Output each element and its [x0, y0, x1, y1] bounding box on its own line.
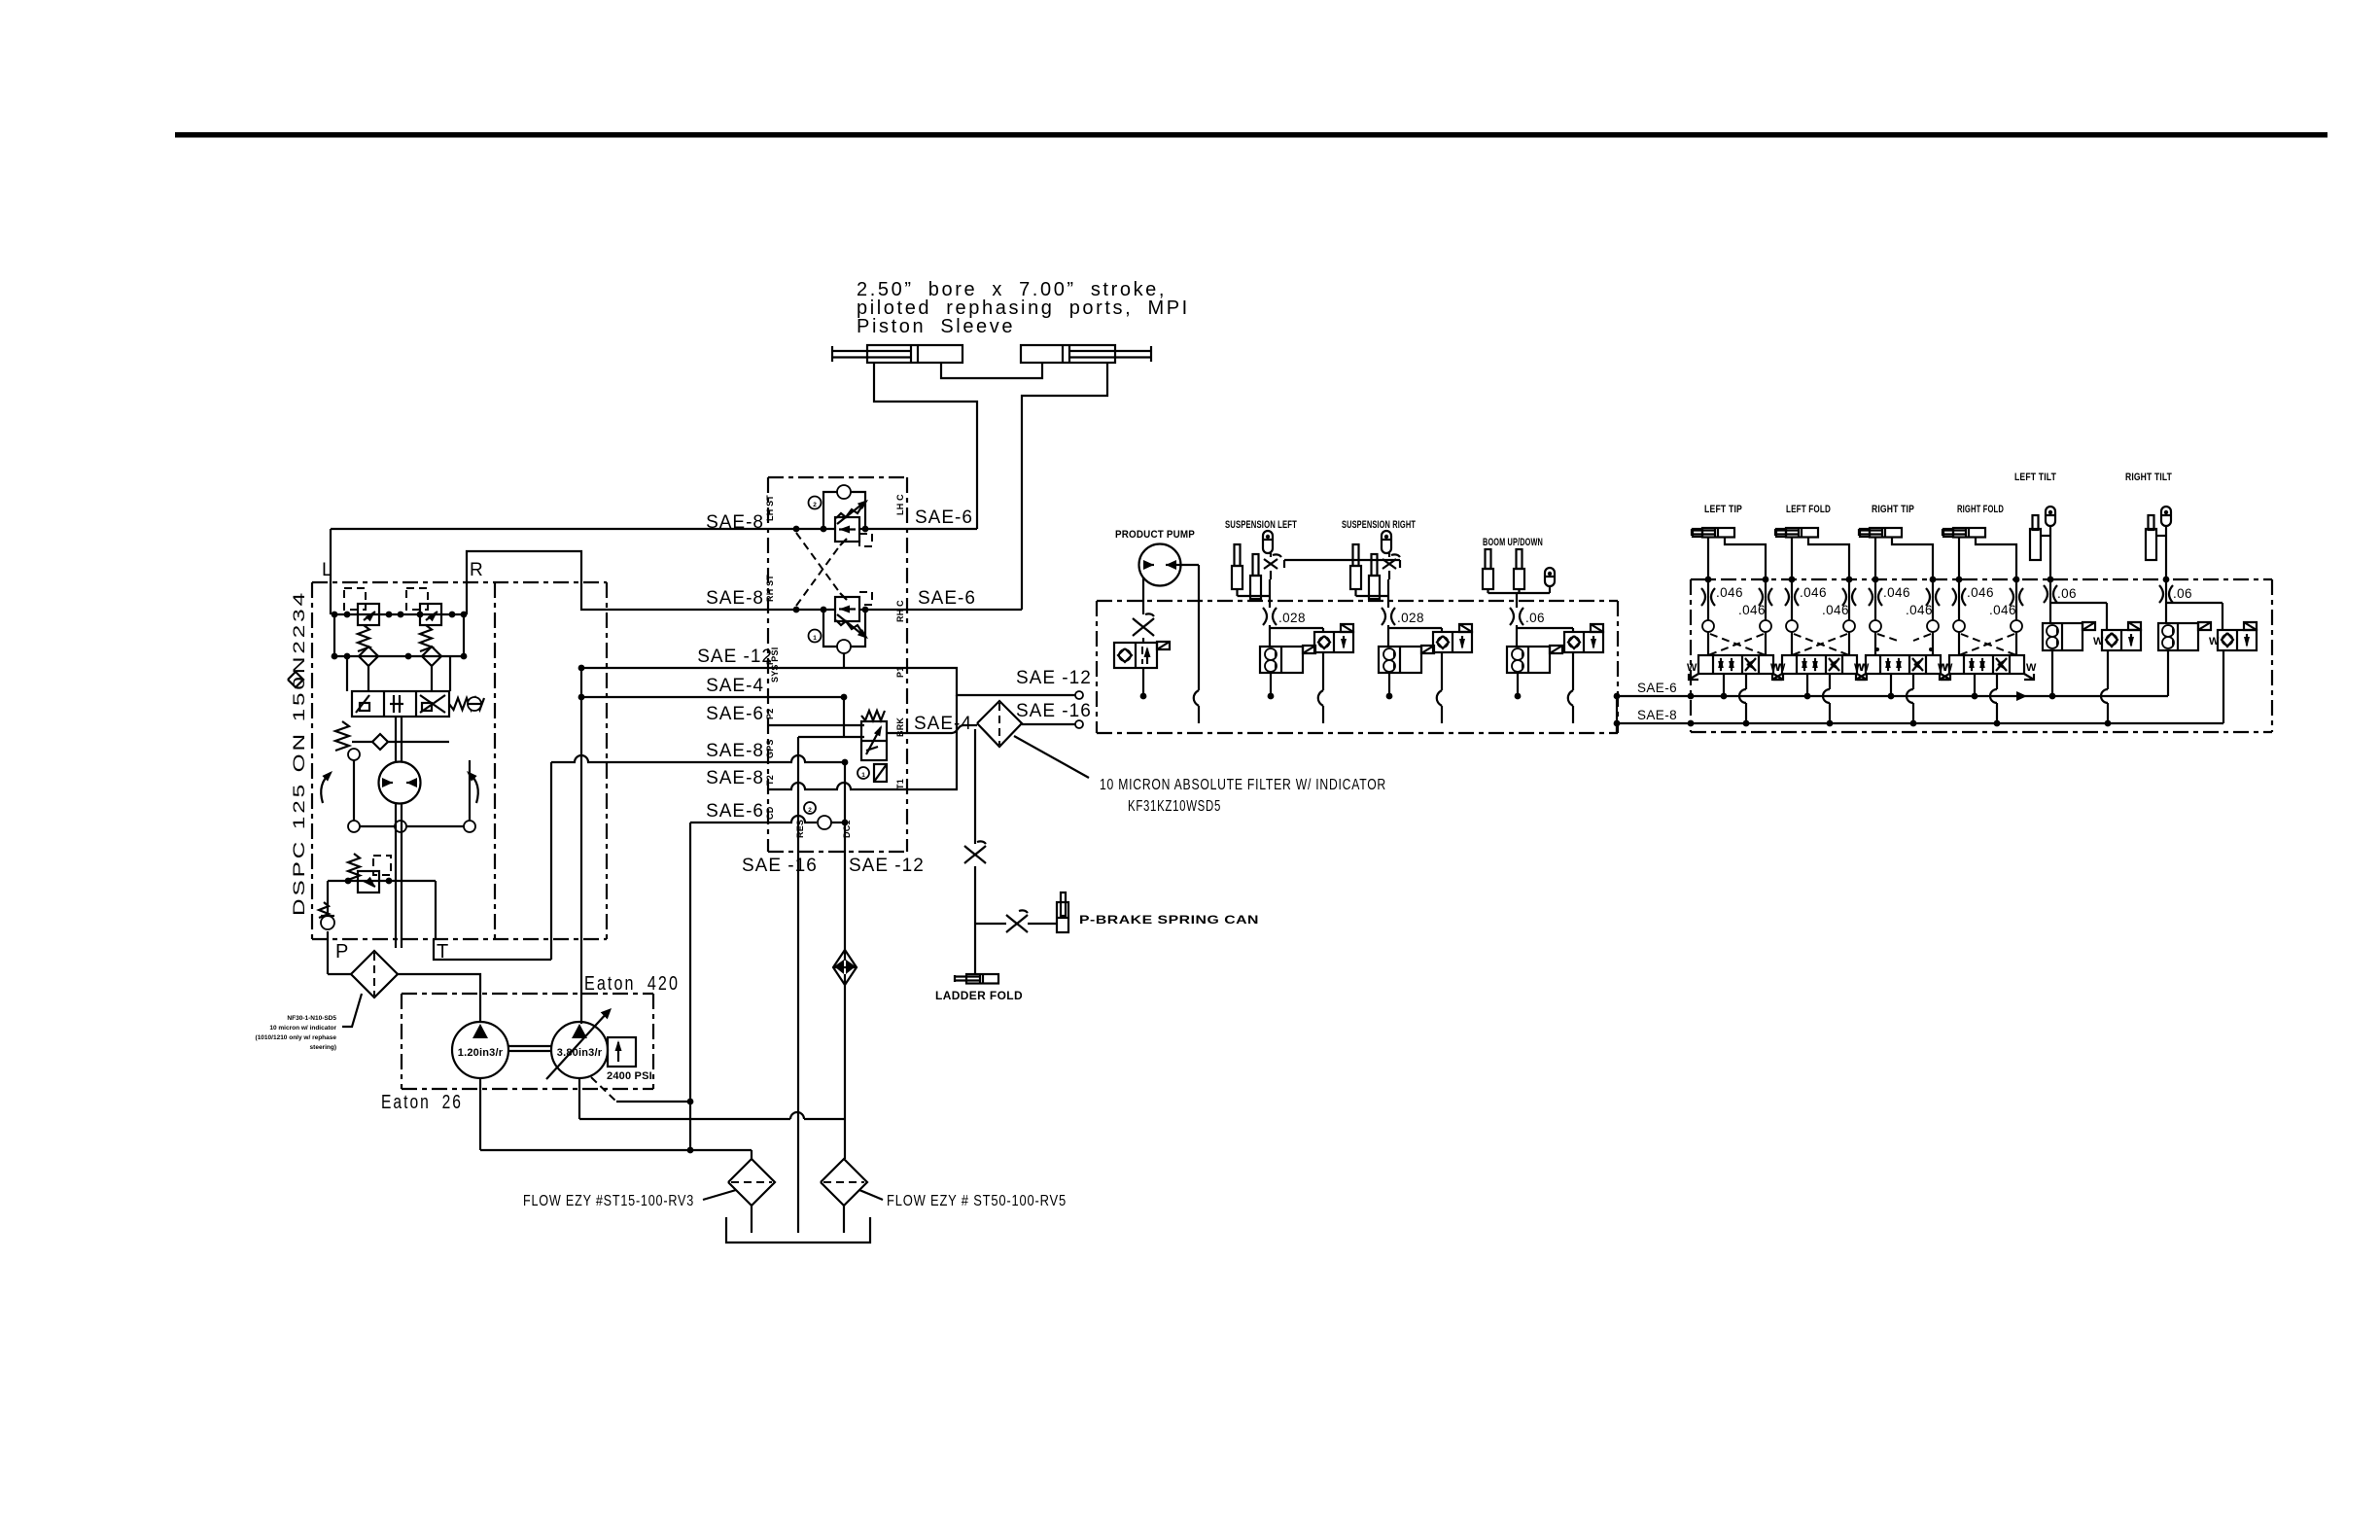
svg-text:T: T [437, 941, 451, 962]
note: cylinder spec text [857, 279, 1190, 337]
LEFT TIP directional valve [1687, 655, 1786, 680]
wire: left cyl cap port to LH C line [874, 363, 977, 529]
steering relief valve right [406, 588, 441, 651]
product pump drop to valve [1142, 638, 1144, 643]
svg-text:P2: P2 [765, 709, 775, 719]
suspension crossover wire [1284, 560, 1400, 568]
svg-text:SAE-6: SAE-6 [915, 507, 973, 528]
svg-text:SAE-8: SAE-8 [706, 768, 764, 788]
svg-text:RIGHT TILT: RIGHT TILT [2125, 472, 2172, 483]
LEFT TILT accumulator [2046, 507, 2055, 526]
svg-text:.06: .06 [2173, 586, 2192, 601]
svg-text:Eaton 420: Eaton 420 [584, 973, 680, 995]
gerotor motor [379, 762, 421, 804]
svg-text:.046: .046 [1800, 585, 1827, 600]
LEFT TIP pilot cross [1708, 634, 1766, 655]
RIGHT TILT feed drop [2163, 526, 2170, 623]
variable orifice p-brake [1006, 915, 1028, 932]
steering control valve [352, 691, 484, 717]
boom lock valve [1507, 646, 1562, 673]
LEFT FOLD port wires [1789, 538, 1853, 583]
wire: RH ST line (SAE-8) from steering R [467, 551, 1022, 612]
p-brake spring can [1057, 892, 1068, 932]
svg-text:P-BRAKE SPRING CAN: P-BRAKE SPRING CAN [1079, 913, 1259, 927]
svg-text:NF30-1-N10-SD5: NF30-1-N10-SD5 [287, 1015, 336, 1022]
svg-text:SAE -12: SAE -12 [1016, 668, 1092, 688]
suspension right orifice X [1382, 559, 1396, 569]
variable orifice ladder [964, 846, 986, 863]
svg-text:2: 2 [808, 807, 812, 814]
svg-text:LADDER FOLD: LADDER FOLD [935, 989, 1023, 1002]
LEFT TIP orifice labels [1716, 585, 1766, 617]
svg-text:.046: .046 [1906, 603, 1933, 617]
RIGHT FOLD orifice labels [1967, 585, 2016, 617]
svg-text:.046: .046 [1967, 585, 1994, 600]
wire: pump1 drain to filter [480, 1078, 752, 1159]
LEFT TILT cylinder [2030, 515, 2050, 560]
LEFT FOLD pilot cross [1792, 634, 1849, 655]
suspension right riser to valves [1388, 625, 1442, 647]
product pump right link [1176, 564, 1199, 566]
center manifold dash-dot box [1097, 601, 1618, 733]
LEFT TIP cylinder [1692, 528, 1734, 538]
svg-text:W: W [1687, 662, 1697, 674]
product pump left drop [1142, 577, 1144, 614]
LEFT TIP pilot checks [1702, 620, 1771, 632]
product pump circle [1139, 544, 1181, 586]
rotated port labels on CB box [765, 494, 905, 838]
port circle SAE-16 [1075, 720, 1083, 728]
LEFT TIP port wires [1705, 538, 1769, 583]
wire: BRK SAE-4 line to filter [887, 725, 977, 733]
labels SAE-16 / SAE-12 below box [742, 856, 925, 876]
boom cylinders [1483, 549, 1524, 589]
counterbalance manifold dash-dot box [768, 477, 907, 852]
svg-text:W: W [2209, 636, 2220, 647]
wire: pump2 outlet collector [579, 1078, 845, 1119]
svg-text:1.20in3/r: 1.20in3/r [458, 1047, 504, 1059]
boom riser to valves [1517, 625, 1573, 647]
LEFT FOLD meter orifices [1785, 579, 1856, 620]
RIGHT TIP meter orifices [1869, 579, 1940, 620]
RIGHT FOLD P T drops [1975, 674, 1997, 723]
suspension left accumulator [1263, 531, 1273, 553]
wire: filter to pump 1 [398, 974, 480, 1022]
label NF30 block [256, 1015, 337, 1051]
suspension left valve drops [1268, 652, 1323, 723]
svg-text:.046: .046 [1989, 603, 2016, 617]
steering bottom line [328, 878, 436, 885]
svg-text:RH C: RH C [895, 600, 905, 622]
svg-text:W: W [1770, 662, 1781, 674]
suction riser DC1 [844, 852, 846, 1159]
steering feedback arcs [321, 771, 478, 803]
boom feed orifice [1510, 608, 1514, 625]
variable orifice product pump [1133, 618, 1154, 636]
suspension left riser to valves [1270, 625, 1323, 647]
suspension right cylinders [1350, 544, 1380, 599]
cylinder: right master (2.50 bore) [1021, 345, 1151, 363]
port circles center manifold [0, 0, 1, 1]
steering check line [332, 614, 468, 659]
LEFT TILT branch to bypass [2050, 603, 2107, 630]
RES drain riser to tank [797, 737, 799, 1233]
NF30 leader [342, 994, 362, 1027]
svg-text:BOOM UP/DOWN: BOOM UP/DOWN [1483, 537, 1543, 548]
svg-text:SAE-4: SAE-4 [706, 676, 764, 696]
steering column double line lower [396, 804, 402, 948]
inline check on DC1 [833, 950, 857, 985]
check diamond left [359, 647, 378, 666]
product pump valve drop [1140, 668, 1147, 699]
RIGHT FOLD cylinder [1942, 528, 1985, 538]
leader ST50 [859, 1190, 883, 1200]
filter FLOW EZY ST15 [728, 1159, 775, 1233]
wire: series rephasing link left rod to right cap [941, 363, 1042, 378]
svg-text:.06: .06 [2057, 586, 2077, 601]
suspension left lock valve [1260, 646, 1315, 673]
wire: SYS PSI SAE-4 line [578, 694, 848, 701]
svg-text:.046: .046 [1822, 603, 1849, 617]
steering T drop [435, 881, 437, 939]
svg-text:KF31KZ10WSD5: KF31KZ10WSD5 [1128, 798, 1221, 815]
filter FLOW EZY ST50 [821, 1159, 867, 1233]
LEFT TILT bypass valve [2093, 622, 2141, 650]
RIGHT TIP orifice labels [1883, 585, 1933, 617]
ladder fold cylinder [955, 974, 998, 984]
svg-text:R: R [470, 560, 484, 580]
svg-text:steering): steering) [310, 1044, 336, 1051]
steering inlet check small [288, 672, 303, 687]
suspension right drop wires [1356, 553, 1390, 608]
svg-text:3.80in3/r: 3.80in3/r [557, 1047, 603, 1059]
svg-text:SUSPENSION RIGHT: SUSPENSION RIGHT [1342, 519, 1416, 531]
LEFT FOLD directional valve [1770, 655, 1870, 680]
LEFT TIP valve feeds [1708, 632, 1766, 655]
wire: right cyl rod port to RH C line [1022, 363, 1107, 610]
svg-text:SAE-6: SAE-6 [706, 704, 764, 724]
steering unit outer dash-dot box [312, 582, 607, 939]
svg-text:W: W [2093, 636, 2104, 647]
suspension right lock valve [1379, 646, 1434, 673]
RIGHT TILT orifice [2159, 585, 2163, 603]
svg-text:.046: .046 [1716, 585, 1743, 600]
svg-text:SAE -16: SAE -16 [1016, 701, 1092, 721]
svg-text:LH C: LH C [895, 494, 905, 515]
wire: GPS SAE-8 line [551, 755, 848, 765]
boom drop wires [1488, 586, 1551, 608]
RIGHT TILT cylinder [2146, 515, 2166, 560]
right manifold dash-dot box [1691, 579, 2272, 732]
svg-text:SAE-6: SAE-6 [706, 801, 764, 822]
wire: LH ST line (SAE-8) from steering L [331, 526, 977, 533]
suspension left feed orifice [1263, 608, 1267, 625]
suspension left cylinders [1232, 544, 1261, 599]
leader ST15 [703, 1190, 736, 1200]
boom accumulator [1545, 568, 1555, 586]
steering relief valve left [344, 588, 379, 651]
svg-text:T2: T2 [765, 775, 775, 786]
svg-text:W: W [2026, 662, 2037, 674]
RIGHT TILT accumulator [2161, 507, 2171, 526]
pump coupling shaft [508, 1046, 551, 1051]
RIGHT TILT branch to bypass [2166, 603, 2222, 630]
suspension right feed orifice [1382, 608, 1385, 625]
SAE-6 bus line [1614, 691, 2168, 701]
boom bypass valve [1564, 624, 1603, 652]
svg-text:SAE-8: SAE-8 [706, 588, 764, 609]
RIGHT TIP cylinder [1859, 528, 1902, 538]
svg-text:W: W [1854, 662, 1865, 674]
LEFT TILT valve drops [2052, 650, 2108, 723]
svg-text:10 micron w/ indicator: 10 micron w/ indicator [269, 1025, 336, 1032]
RIGHT FOLD pilot cross [1959, 634, 2016, 655]
RIGHT TIP directional valve [1854, 655, 1953, 680]
suspension right accumulator [1382, 531, 1391, 553]
RIGHT TIP valve feeds [1875, 632, 1933, 655]
steering column double line upper [396, 717, 402, 762]
wire: P riser junction to T1 [956, 695, 958, 789]
wire: P riser to Eaton 420 pump [580, 668, 582, 1024]
10 micron filter diamond [977, 701, 1022, 747]
SAE-8 bus line [1614, 720, 2223, 727]
wire: case drain to return riser [616, 1099, 693, 1105]
svg-text:Eaton 26: Eaton 26 [381, 1092, 463, 1113]
svg-text:.028: .028 [1278, 611, 1306, 625]
suspension left bypass valve [1314, 624, 1353, 652]
counterbalance valve LH [809, 485, 873, 546]
svg-text:FLOW EZY #ST15-100-RV3: FLOW EZY #ST15-100-RV3 [523, 1193, 694, 1209]
svg-text:LH ST: LH ST [765, 495, 775, 521]
port circle SAE-12 [1075, 691, 1083, 699]
pump 2 Eaton 420 variable [546, 1008, 612, 1079]
steering supply filter NF30 [328, 951, 398, 997]
svg-text:FLOW EZY # ST50-100-RV5: FLOW EZY # ST50-100-RV5 [887, 1193, 1067, 1209]
svg-text:2400 PSI: 2400 PSI [607, 1070, 652, 1082]
svg-text:LEFT TIP: LEFT TIP [1704, 504, 1742, 515]
wire: CD SAE-6 return line [690, 802, 848, 829]
pressure compensator box [608, 1037, 636, 1067]
suspension left drop wires [1238, 553, 1272, 608]
wire: SAE-16 filter to port [1022, 723, 1077, 725]
LEFT TILT orifice [2044, 585, 2047, 603]
steering L/R drop to bus [331, 582, 467, 614]
RIGHT TILT bypass valve [2209, 622, 2257, 650]
tank [726, 1217, 870, 1242]
svg-text:RIGHT TIP: RIGHT TIP [1872, 504, 1914, 515]
wire: p-brake branch [975, 923, 1057, 925]
counterbalance valve RH [809, 592, 873, 653]
wire: P2 SAE-6 line [768, 724, 864, 726]
RIGHT FOLD meter orifices [1952, 579, 2023, 620]
RIGHT TIP P T drops [1891, 674, 1913, 723]
svg-text:.06: .06 [1525, 611, 1545, 625]
svg-text:(1010/1210 only w/ rephase: (1010/1210 only w/ rephase [256, 1034, 337, 1041]
steering P drop with check [319, 881, 334, 951]
RIGHT TIP port wires [1872, 538, 1937, 583]
LEFT FOLD valve feeds [1792, 632, 1849, 655]
RIGHT FOLD directional valve [1938, 655, 2037, 680]
title rule line [175, 132, 2327, 138]
check diamond right [422, 647, 441, 666]
cylinder: left master (2.50 bore) [832, 345, 962, 363]
svg-text:CD: CD [765, 806, 775, 820]
svg-text:DSPC 125 ON 150N2234: DSPC 125 ON 150N2234 [290, 590, 308, 916]
svg-text:LEFT TILT: LEFT TILT [2014, 472, 2056, 483]
RIGHT FOLD valve feeds [1959, 632, 2016, 655]
svg-text:.046: .046 [1738, 603, 1766, 617]
LEFT FOLD P T drops [1807, 674, 1830, 723]
svg-text:10 MICRON ABSOLUTE FILTER W/ I: 10 MICRON ABSOLUTE FILTER W/ INDICATOR [1100, 777, 1386, 793]
RIGHT FOLD port wires [1956, 538, 2020, 583]
steering valve left spring [335, 721, 349, 751]
svg-text:SAE-8: SAE-8 [706, 512, 764, 533]
LEFT TILT feed drop [2047, 526, 2054, 623]
RIGHT TILT valve drops [2168, 650, 2223, 723]
brake valve feed riser [798, 653, 864, 737]
suspension left orifice X [1264, 559, 1277, 569]
svg-text:.046: .046 [1883, 585, 1910, 600]
RIGHT TIP pilot dashes [1875, 634, 1933, 651]
svg-text:SAE -16: SAE -16 [742, 856, 818, 876]
DC1 drain riser [844, 762, 846, 852]
pump dash-dot box [402, 994, 653, 1089]
LEFT TIP P T drops [1724, 674, 1746, 723]
gerotor loop [348, 749, 475, 832]
suspension right bypass valve [1433, 624, 1472, 652]
svg-text:L: L [322, 560, 333, 580]
svg-text:RH ST: RH ST [765, 575, 775, 602]
svg-text:GPS: GPS [765, 739, 775, 758]
svg-text:SAE-6: SAE-6 [1637, 681, 1677, 695]
svg-text:T1: T1 [895, 779, 905, 789]
ladder fold drop line [974, 729, 976, 974]
svg-text:P: P [335, 941, 351, 962]
svg-text:SAE-8: SAE-8 [706, 741, 764, 761]
svg-text:LEFT FOLD: LEFT FOLD [1786, 504, 1831, 515]
LEFT FOLD cylinder [1775, 528, 1818, 538]
product pump dump valve [1114, 642, 1170, 668]
svg-text:Piston Sleeve: Piston Sleeve [857, 316, 1015, 337]
RIGHT TIP pilot checks [1870, 620, 1939, 632]
steering check diamond below valve [352, 734, 449, 750]
wire: T return [434, 762, 551, 960]
LEFT TILT lock valve [2043, 622, 2095, 650]
svg-text:SAE -12: SAE -12 [697, 647, 773, 667]
steering risers to valve [347, 656, 450, 691]
svg-text:RIGHT FOLD: RIGHT FOLD [1957, 504, 2004, 515]
svg-text:1: 1 [813, 635, 817, 642]
svg-text:SUSPENSION LEFT: SUSPENSION LEFT [1225, 519, 1297, 531]
steering bottom relief [348, 854, 391, 892]
svg-text:SAE-6: SAE-6 [918, 588, 976, 609]
wire: P supply SAE-12 line [578, 665, 1077, 695]
wire: steering L riser [330, 529, 332, 582]
svg-text:SAE -12: SAE -12 [849, 856, 925, 876]
LEFT FOLD pilot checks [1786, 620, 1855, 632]
bus stubs to box edges [1616, 696, 1618, 733]
steering top bus [332, 612, 468, 618]
wire: T2/T1 SAE-8 line [768, 783, 958, 789]
wire: CD return riser [689, 822, 691, 1150]
svg-text:1: 1 [861, 772, 865, 779]
suspension right valve drops [1386, 652, 1442, 723]
product pump right drop [1194, 565, 1199, 723]
brake release valve [857, 711, 887, 782]
svg-text:PRODUCT PUMP: PRODUCT PUMP [1115, 529, 1195, 541]
pump 1 Eaton 26 [452, 1022, 508, 1078]
svg-text:SAE-8: SAE-8 [1637, 708, 1677, 722]
LEFT FOLD orifice labels [1800, 585, 1849, 617]
label 10 MICRON ABSOLUTE FILTER [1100, 777, 1386, 815]
steering unit inner partition [494, 582, 496, 939]
LEFT TIP meter orifices [1701, 579, 1772, 620]
filter leader line [1014, 736, 1089, 778]
svg-text:W: W [1938, 662, 1948, 674]
svg-text:RES: RES [795, 820, 805, 838]
pump2 case drain dashed [591, 1077, 616, 1102]
RIGHT FOLD pilot checks [1953, 620, 2022, 632]
boom valve drops [1515, 652, 1573, 723]
RIGHT TILT lock valve [2158, 622, 2211, 650]
svg-text:SAE-4: SAE-4 [914, 714, 972, 734]
pilot cross lines [793, 526, 847, 613]
svg-text:.028: .028 [1397, 611, 1424, 625]
svg-text:2: 2 [813, 502, 817, 508]
